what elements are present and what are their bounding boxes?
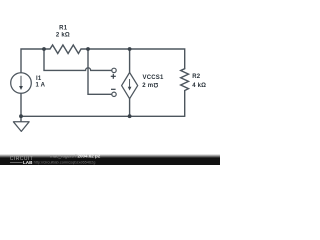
svg-text:1 A: 1 A — [36, 83, 46, 89]
svg-text:Ω: Ω — [153, 81, 158, 87]
svg-text:I1: I1 — [36, 76, 42, 82]
svg-text:4 kΩ: 4 kΩ — [192, 83, 206, 89]
svg-text:2 m: 2 m — [142, 83, 153, 89]
svg-text:R2: R2 — [192, 74, 201, 80]
svg-text:LAB: LAB — [23, 160, 33, 165]
svg-text:http://circuitlab.com/csqbzxd6: http://circuitlab.com/csqbzxd65462g — [34, 159, 96, 164]
svg-text:mac_rogers / 2004.62 p2: mac_rogers / 2004.62 p2 — [50, 154, 101, 159]
svg-text:R1: R1 — [59, 25, 68, 31]
svg-text:VCCS1: VCCS1 — [143, 75, 164, 81]
svg-text:2 kΩ: 2 kΩ — [56, 33, 70, 39]
